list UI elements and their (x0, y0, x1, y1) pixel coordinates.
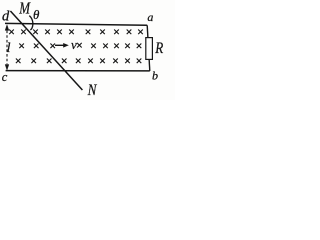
svg-text:N: N (87, 82, 98, 99)
svg-text:M: M (18, 0, 30, 18)
svg-text:θ: θ (33, 7, 40, 22)
svg-text:R: R (154, 40, 163, 57)
svg-text:a: a (147, 10, 153, 24)
svg-text:l: l (7, 41, 11, 56)
svg-text:d: d (2, 8, 10, 24)
svg-text:v: v (71, 37, 77, 52)
svg-text:c: c (2, 70, 8, 84)
svg-text:b: b (152, 69, 158, 83)
